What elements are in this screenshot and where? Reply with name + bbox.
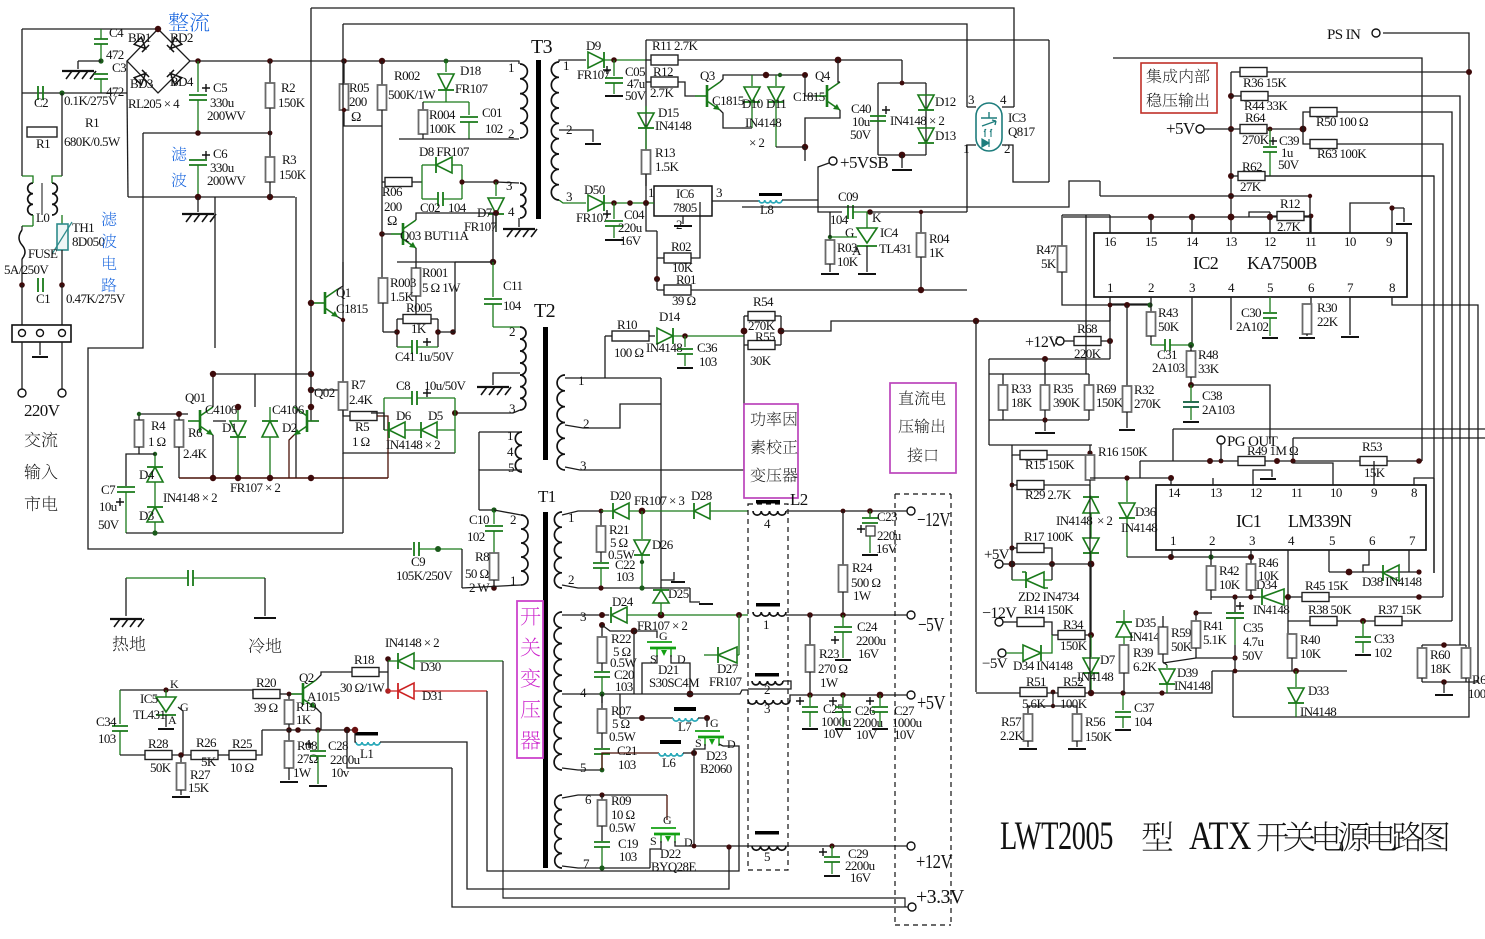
svg-text:200WV: 200WV <box>207 108 246 123</box>
inductor L8 <box>759 193 782 196</box>
svg-text:R25: R25 <box>232 736 252 751</box>
svg-text:2.7K: 2.7K <box>650 85 674 100</box>
AC plug connector <box>12 325 71 342</box>
svg-text:K: K <box>872 210 882 225</box>
diode D7 <box>495 182 497 196</box>
svg-text:10: 10 <box>1344 234 1356 249</box>
svg-text:T2: T2 <box>534 300 555 322</box>
svg-text:1 Ω: 1 Ω <box>352 434 370 449</box>
svg-text:11: 11 <box>1305 234 1316 249</box>
capacitor C22 <box>593 563 609 568</box>
svg-text:C10: C10 <box>469 512 489 527</box>
resistor R05 <box>343 61 345 84</box>
diode D35 <box>1123 610 1125 621</box>
svg-text:C37: C37 <box>1134 700 1155 715</box>
svg-text:G: G <box>180 700 189 714</box>
svg-text:−5V: −5V <box>918 614 945 636</box>
svg-text:0.47K/275V: 0.47K/275V <box>66 291 126 306</box>
wire Q01 emitter down <box>212 435 214 478</box>
capacitor C8 <box>384 397 412 399</box>
wire Q2 collector to R18 <box>316 672 352 680</box>
svg-text:L7: L7 <box>678 719 692 734</box>
transistor Q4 <box>815 82 840 110</box>
svg-text:BD3: BD3 <box>130 76 153 91</box>
resistor R25 <box>218 754 229 756</box>
wire Q01 base <box>139 413 188 415</box>
svg-text:D8 FR107: D8 FR107 <box>419 144 470 159</box>
wire AC left vertical <box>21 29 23 93</box>
resistor R24 <box>842 511 844 565</box>
resistor R40 <box>1288 633 1292 635</box>
svg-text:+3.3V: +3.3V <box>916 886 965 908</box>
capacitor C25 <box>796 697 804 705</box>
resistor R22 <box>601 625 603 637</box>
wire pin10 <box>1350 203 1390 233</box>
wire mid rail up to IC2 pin rail <box>1110 304 1150 321</box>
svg-text:103: 103 <box>616 569 634 584</box>
diode D18 <box>445 61 447 72</box>
wire R60/R61 bottom <box>1422 681 1478 683</box>
svg-text:50V: 50V <box>625 88 647 103</box>
wire y262 node <box>397 261 493 263</box>
svg-text:0.5W: 0.5W <box>609 820 636 835</box>
svg-text:0.5W: 0.5W <box>609 729 636 744</box>
svg-text:R6: R6 <box>188 425 203 440</box>
wire top bus 1 <box>311 8 1014 107</box>
svg-text:D5: D5 <box>428 408 443 423</box>
svg-text:R49 1M Ω: R49 1M Ω <box>1247 443 1298 458</box>
resistor R50 <box>1303 112 1310 129</box>
wire AC top <box>22 28 158 30</box>
wire Q2 emitter <box>316 708 321 730</box>
svg-text:FUSE: FUSE <box>28 246 58 261</box>
svg-text:11: 11 <box>1291 485 1302 500</box>
svg-text:R43: R43 <box>1158 305 1178 320</box>
wire D30/D31 left junction <box>387 659 389 691</box>
svg-text:R3: R3 <box>282 152 296 167</box>
svg-text:1K: 1K <box>296 712 312 727</box>
svg-text:2: 2 <box>676 217 682 232</box>
svg-text:R8: R8 <box>475 549 489 564</box>
svg-text:BYQ28E: BYQ28E <box>651 859 696 874</box>
svg-text:R26: R26 <box>196 735 217 750</box>
svg-text:C2: C2 <box>34 95 48 110</box>
svg-text:Q817: Q817 <box>1008 124 1036 139</box>
svg-text:C28: C28 <box>328 738 348 753</box>
svg-text:200: 200 <box>349 94 367 109</box>
IC U IC6 7805 <box>654 186 712 216</box>
svg-text:C09: C09 <box>838 189 858 204</box>
svg-text:103: 103 <box>98 731 116 746</box>
wire R54 node to mid rail <box>781 321 1110 331</box>
svg-text:2: 2 <box>508 126 514 141</box>
capacitor C11 <box>492 262 494 297</box>
svg-text:30K: 30K <box>750 353 772 368</box>
svg-text:C23: C23 <box>877 509 897 524</box>
wire D6 left down <box>371 413 384 430</box>
resistor R5 <box>350 412 377 421</box>
terminal -12V out <box>907 507 915 515</box>
svg-text:3: 3 <box>1189 280 1195 295</box>
wire cluster top rail <box>989 373 1089 375</box>
svg-text:R62: R62 <box>1242 159 1262 174</box>
svg-text:3: 3 <box>580 458 586 473</box>
svg-text:2A103: 2A103 <box>1202 402 1234 417</box>
capacitor C28 <box>305 740 313 748</box>
svg-text:D24: D24 <box>612 594 634 609</box>
wire PS IN net vertical right <box>1233 33 1469 717</box>
svg-text:IC2: IC2 <box>1193 253 1218 273</box>
svg-text:R17 100K: R17 100K <box>1024 529 1074 544</box>
svg-text:15K: 15K <box>1364 465 1386 480</box>
svg-text:G: G <box>845 225 854 240</box>
svg-text:R16 150K: R16 150K <box>1098 444 1148 459</box>
capacitor C21 <box>594 749 610 754</box>
svg-text:680K/0.5W: 680K/0.5W <box>64 134 121 149</box>
resistor R56 <box>1053 706 1077 714</box>
svg-text:D: D <box>727 737 736 751</box>
wire Q02 base link <box>311 407 319 421</box>
wire pin2 stub down <box>1150 297 1152 305</box>
wire right bundle v5 (R63 net) <box>1337 144 1443 597</box>
wire D23 drain <box>719 744 723 746</box>
svg-text:D30: D30 <box>420 659 441 674</box>
svg-text:R09: R09 <box>611 793 631 808</box>
svg-text:100K: 100K <box>1468 686 1485 701</box>
svg-text:R2: R2 <box>281 80 295 95</box>
capacitor C6 <box>202 151 210 159</box>
svg-text:Q1: Q1 <box>336 285 351 300</box>
wire cluster stub <box>1044 359 1046 374</box>
svg-text:D6: D6 <box>396 408 412 423</box>
wire D21 drain <box>671 655 690 694</box>
resistor R003 <box>382 277 383 279</box>
terminal -5V <box>998 649 1006 657</box>
svg-text:15K: 15K <box>188 780 210 795</box>
resistor R8 <box>490 553 499 580</box>
svg-text:500K/1W: 500K/1W <box>388 87 436 102</box>
svg-text:18K: 18K <box>1011 395 1033 410</box>
wire T3 sec pin2 tap <box>559 130 593 142</box>
svg-text:LM339N: LM339N <box>1288 511 1352 531</box>
svg-text:1: 1 <box>763 617 769 632</box>
wire pin3 stub <box>1250 550 1252 557</box>
svg-text:C30: C30 <box>1241 305 1261 320</box>
svg-text:1: 1 <box>508 60 514 75</box>
thermistor TH1 <box>61 215 63 224</box>
svg-text:390K: 390K <box>1053 395 1081 410</box>
svg-text:IN4148: IN4148 <box>1174 678 1210 693</box>
svg-text:C6: C6 <box>213 146 228 161</box>
wire y717 bottom rail <box>1232 671 1234 717</box>
transistor Q1 <box>313 289 338 317</box>
svg-text:R40: R40 <box>1300 632 1320 647</box>
wire to T1 primary top <box>479 509 494 511</box>
svg-text:16: 16 <box>1104 234 1117 249</box>
svg-text:1W: 1W <box>293 765 312 780</box>
wire y690 rail <box>120 689 253 691</box>
wire pin9 <box>1392 208 1404 233</box>
wire right bundle v3 (R44 net) <box>1268 96 1460 645</box>
svg-text:12: 12 <box>1264 234 1276 249</box>
svg-text:150K: 150K <box>278 95 306 110</box>
svg-text:R69: R69 <box>1096 381 1116 396</box>
diode D4 <box>154 454 156 466</box>
svg-text:R05: R05 <box>349 80 369 95</box>
diode D7b <box>1090 635 1092 657</box>
ground T2 tap <box>493 373 520 385</box>
wire sec1 to D20 <box>562 511 601 515</box>
svg-text:L2: L2 <box>790 490 808 509</box>
wire y445 feed <box>989 444 1092 446</box>
ground near bridge <box>78 60 101 62</box>
capacitor C1 <box>61 250 63 285</box>
wire y671 rail <box>1234 658 1236 671</box>
svg-text:5: 5 <box>1329 533 1335 548</box>
diode D33 <box>1295 671 1297 687</box>
svg-text:R30: R30 <box>1317 300 1337 315</box>
node q-rail 374 <box>308 371 314 377</box>
wire y597 row <box>1211 596 1260 598</box>
resistor R2 <box>269 61 271 83</box>
svg-text:L1: L1 <box>360 746 373 761</box>
svg-text:2: 2 <box>1004 141 1010 156</box>
wire x1173 drop <box>1172 429 1174 461</box>
label 功率因素校正变压器 magenta box <box>744 404 798 498</box>
wire right bundle R36 net <box>1266 71 1469 73</box>
svg-text:33K: 33K <box>1198 361 1220 376</box>
svg-text:R39: R39 <box>1133 645 1153 660</box>
resistor R07 <box>601 694 603 709</box>
svg-text:220V: 220V <box>24 401 61 420</box>
svg-text:R41: R41 <box>1203 618 1223 633</box>
svg-text:2: 2 <box>1209 533 1215 548</box>
wire C40/D12 top <box>901 60 903 83</box>
terminal -5V out <box>907 611 915 619</box>
resistor R45 <box>1288 596 1302 598</box>
svg-text:R48: R48 <box>1198 347 1218 362</box>
wire pin9 IC1 stub <box>1373 461 1375 485</box>
svg-text:D7: D7 <box>1100 652 1116 667</box>
svg-text:R47: R47 <box>1036 242 1057 257</box>
svg-text:2A103: 2A103 <box>1152 360 1184 375</box>
svg-text:FR107: FR107 <box>576 210 610 225</box>
wire T2 sec tap3 <box>565 345 744 470</box>
resistor R36 <box>1231 71 1240 73</box>
wire sec5 tap <box>562 768 602 770</box>
wire D13 bottom <box>878 154 926 156</box>
svg-text:L8: L8 <box>760 202 773 217</box>
resistor R17 <box>1011 485 1013 548</box>
svg-text:18K: 18K <box>1430 661 1452 676</box>
capacitor C29 <box>819 848 827 856</box>
ground main filter <box>197 197 199 212</box>
resistor R21 <box>600 511 602 526</box>
svg-text:R63 100K: R63 100K <box>1317 146 1367 161</box>
svg-text:R13: R13 <box>655 145 675 160</box>
wire pin5 stub <box>1328 550 1330 572</box>
svg-text:R003: R003 <box>390 275 416 290</box>
wire Q4 top rail <box>742 74 805 76</box>
svg-text:1: 1 <box>507 428 513 443</box>
resistor R06 <box>385 178 412 187</box>
resistor R43 <box>1150 305 1152 312</box>
ground D25 aux <box>661 572 674 580</box>
wire D30 loop <box>503 661 905 907</box>
terminal PG OUT <box>1217 436 1225 444</box>
diode D20 <box>613 503 629 519</box>
svg-text:10u/50V: 10u/50V <box>424 378 467 393</box>
svg-text:103: 103 <box>618 757 636 772</box>
svg-text:BUT11A: BUT11A <box>424 228 470 243</box>
resistor R41 <box>1195 613 1197 621</box>
wire L1 out feedback <box>380 742 729 889</box>
wire top bus 2 <box>343 24 967 107</box>
svg-text:39 Ω: 39 Ω <box>672 293 696 308</box>
wire x1086 pin16 net <box>1085 215 1087 374</box>
wire vertical x646 <box>645 40 647 186</box>
svg-text:C4: C4 <box>109 25 124 40</box>
wire D23 source <box>694 744 705 753</box>
transistor Q2 <box>291 680 316 708</box>
wire x1012 segment <box>1011 548 1013 580</box>
svg-text:T3: T3 <box>531 36 553 58</box>
wire pin7 stub <box>1408 550 1410 572</box>
resistor R54 <box>748 312 775 321</box>
svg-text:G: G <box>659 629 668 643</box>
wire Q01 collector <box>213 374 255 407</box>
svg-text:3: 3 <box>1249 533 1255 548</box>
wire y564 <box>1012 563 1091 565</box>
svg-text:G: G <box>710 716 719 730</box>
ground cluster <box>1044 420 1046 431</box>
label 直流电压输出接口 magenta box <box>890 383 956 473</box>
svg-text:D11: D11 <box>766 96 786 111</box>
svg-text:3: 3 <box>580 609 586 624</box>
wire IC2 pin1/2 rail <box>1094 304 1150 306</box>
svg-text:2.7K: 2.7K <box>1277 219 1301 234</box>
wire Q1 emitter <box>338 317 343 320</box>
wire y429 long rail <box>1173 428 1485 430</box>
svg-text:R42: R42 <box>1219 563 1239 578</box>
svg-text:Ω: Ω <box>351 110 361 125</box>
wire to plug <box>21 285 23 325</box>
svg-text:R50 100 Ω: R50 100 Ω <box>1316 114 1368 129</box>
capacitor Y-cap <box>126 577 188 579</box>
resistor R6 <box>175 420 184 447</box>
svg-text:5: 5 <box>1267 280 1273 295</box>
label cold ground <box>249 638 265 654</box>
capacitor C34 <box>119 690 121 724</box>
wire gate feed D21 <box>602 625 634 631</box>
svg-text:C4106: C4106 <box>272 402 305 417</box>
svg-text:27Ω: 27Ω <box>297 751 318 766</box>
svg-text:T1: T1 <box>538 487 556 506</box>
DC connector dashed box <box>895 494 951 925</box>
svg-text:2.4K: 2.4K <box>183 446 207 461</box>
transistor Q02 <box>294 407 319 435</box>
svg-text:104: 104 <box>1134 714 1153 729</box>
terminal +12V <box>1056 337 1064 345</box>
svg-text:D20: D20 <box>610 488 631 503</box>
wire IC5 A ground <box>165 715 167 727</box>
svg-text:C3: C3 <box>112 60 126 75</box>
capacitor C10 <box>493 510 495 524</box>
wire D38 row <box>1329 571 1419 573</box>
label 开关变压器 magenta box <box>517 601 543 758</box>
resistor R13 <box>642 150 651 174</box>
svg-text:R29 2.7K: R29 2.7K <box>1025 487 1072 502</box>
svg-text:12: 12 <box>1250 485 1262 500</box>
IC IC5 TL431 <box>156 697 176 712</box>
capacitor C20 <box>594 672 610 677</box>
svg-text:1u/50V: 1u/50V <box>418 349 455 364</box>
svg-text:D: D <box>684 835 693 849</box>
diode D24 <box>611 607 627 623</box>
svg-text:R001: R001 <box>422 265 448 280</box>
resistor R27 <box>180 755 182 763</box>
wire Q4 collector <box>838 60 840 82</box>
terminal +3.3V out <box>908 903 916 911</box>
resistor R03 <box>830 236 857 238</box>
svg-text:5: 5 <box>508 460 514 475</box>
label blue 滤波电路 vertical <box>102 212 117 227</box>
resistor R23 <box>809 615 811 645</box>
svg-text:50V: 50V <box>850 127 872 142</box>
capacitor C02 <box>438 192 443 206</box>
wire to L0 <box>21 132 23 176</box>
wire R47 bottom to pin1 rail <box>1062 272 1094 305</box>
zener ZD2 <box>1026 572 1044 588</box>
wire R002 to R06/Q03 vertical <box>381 110 383 278</box>
wire y196 left end <box>1099 181 1101 196</box>
svg-text:FR107: FR107 <box>577 67 611 82</box>
svg-text:C36: C36 <box>697 340 718 355</box>
terminal +5V out <box>907 691 915 699</box>
wire pin4 vertical <box>1287 550 1289 634</box>
wire right bundle v4 (R50 net) <box>1337 112 1452 621</box>
svg-text:10u: 10u <box>99 499 118 514</box>
terminal +12V out <box>907 842 915 850</box>
svg-text:R38 50K: R38 50K <box>1308 602 1352 617</box>
svg-text:D4: D4 <box>139 467 155 482</box>
resistor R55 <box>748 341 775 350</box>
svg-text:R1: R1 <box>36 136 50 151</box>
svg-text:R12: R12 <box>653 64 673 79</box>
svg-text:RL205 × 4: RL205 × 4 <box>128 96 180 111</box>
svg-text:C24: C24 <box>857 619 878 634</box>
label blue 整流 <box>169 12 189 31</box>
svg-text:50V: 50V <box>98 517 120 532</box>
svg-text:FR107: FR107 <box>455 81 489 96</box>
resistor R62 <box>1231 175 1238 177</box>
svg-text:R005: R005 <box>406 300 432 315</box>
wire R5 to rail <box>377 416 388 478</box>
svg-text:8: 8 <box>1411 485 1417 500</box>
svg-text:BD1: BD1 <box>128 30 151 45</box>
svg-text:0.1K/275V: 0.1K/275V <box>64 93 118 108</box>
resistor R64 <box>1204 128 1240 130</box>
svg-text:R45 15K: R45 15K <box>1305 578 1349 593</box>
svg-text:BD2: BD2 <box>170 30 193 45</box>
capacitor C23 <box>869 511 871 517</box>
resistor R35 <box>1044 374 1046 385</box>
resistor R004 <box>422 102 424 110</box>
wire 5VSB rail y59-61 extension <box>742 59 902 61</box>
svg-text:D28: D28 <box>691 488 712 503</box>
svg-text:D2: D2 <box>282 420 297 435</box>
diode IN4148 upper of x1092 pair <box>1089 485 1091 496</box>
